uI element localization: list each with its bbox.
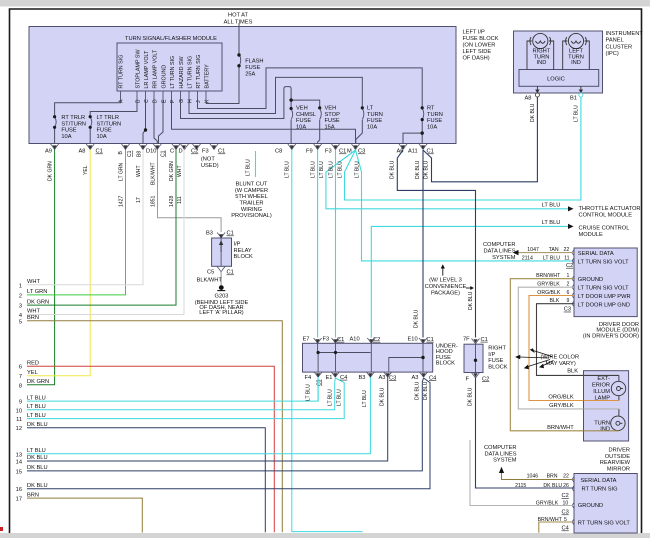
svg-text:RT: RT — [427, 106, 435, 112]
svg-text:DK BLU: DK BLU — [543, 483, 562, 489]
svg-text:E: E — [161, 99, 167, 103]
svg-text:K: K — [204, 99, 210, 103]
svg-text:SERIAL DATA: SERIAL DATA — [581, 478, 617, 484]
svg-text:C8: C8 — [275, 149, 282, 155]
svg-text:7: 7 — [19, 374, 22, 380]
svg-text:16: 16 — [16, 487, 22, 493]
svg-text:LT BLU: LT BLU — [328, 389, 334, 406]
svg-text:DRIVER: DRIVER — [609, 448, 631, 454]
svg-text:(IN DRIVER'S DOOR): (IN DRIVER'S DOOR) — [583, 333, 639, 339]
svg-text:HAZARD SW: HAZARD SW — [179, 55, 185, 88]
svg-text:1427: 1427 — [119, 196, 125, 207]
svg-text:LT BLU: LT BLU — [337, 389, 343, 406]
svg-text:17: 17 — [16, 497, 22, 503]
svg-text:CRUISE CONTROL: CRUISE CONTROL — [579, 226, 630, 232]
svg-text:LT BLU: LT BLU — [27, 413, 46, 419]
svg-text:DK GRN: DK GRN — [27, 379, 49, 385]
svg-text:CHMSL: CHMSL — [296, 112, 316, 118]
svg-text:TURN SIGNAL/FLASHER MODULE: TURN SIGNAL/FLASHER MODULE — [125, 36, 217, 42]
svg-text:5TH WHEEL: 5TH WHEEL — [235, 194, 268, 200]
svg-text:EXT-: EXT- — [597, 376, 610, 382]
svg-text:(IPC): (IPC) — [606, 51, 619, 57]
svg-text:10A: 10A — [296, 125, 306, 131]
svg-text:BLK/WHT: BLK/WHT — [197, 278, 223, 284]
svg-text:DK BLU: DK BLU — [390, 160, 396, 179]
svg-text:B: B — [135, 99, 141, 103]
svg-text:H: H — [187, 99, 193, 103]
svg-text:GRY/BLK: GRY/BLK — [549, 403, 574, 409]
svg-text:SERIAL DATA: SERIAL DATA — [578, 251, 614, 257]
svg-text:A10: A10 — [350, 336, 360, 342]
svg-text:I/P: I/P — [234, 242, 241, 248]
svg-text:10A: 10A — [97, 134, 107, 140]
svg-text:BLOCK: BLOCK — [488, 364, 507, 370]
svg-text:LT BLU: LT BLU — [543, 255, 560, 261]
svg-text:WHT: WHT — [27, 279, 40, 285]
svg-text:1428: 1428 — [169, 196, 175, 207]
svg-text:C3: C3 — [564, 307, 571, 313]
svg-text:B8: B8 — [137, 151, 143, 157]
svg-text:GROUND: GROUND — [578, 277, 603, 283]
svg-text:D: D — [179, 149, 183, 155]
svg-text:BRN/WHT: BRN/WHT — [547, 425, 574, 431]
svg-text:E1: E1 — [326, 375, 333, 381]
svg-text:RELAY: RELAY — [234, 248, 252, 254]
svg-text:LEFT SIDE: LEFT SIDE — [463, 49, 492, 55]
svg-text:F: F — [170, 100, 176, 103]
svg-text:J: J — [196, 100, 202, 103]
svg-text:COMPUTER: COMPUTER — [484, 445, 517, 451]
svg-text:LT BLU: LT BLU — [542, 220, 561, 226]
svg-text:ALL TIMES: ALL TIMES — [224, 20, 253, 26]
svg-text:FUSE: FUSE — [427, 118, 442, 124]
svg-text:LT BLU: LT BLU — [285, 161, 291, 178]
svg-text:C1: C1 — [127, 150, 133, 157]
svg-text:C4: C4 — [429, 375, 436, 381]
svg-text:A8: A8 — [525, 96, 532, 102]
svg-text:(WIRE COLOR: (WIRE COLOR — [541, 354, 580, 360]
svg-text:D10: D10 — [146, 149, 156, 155]
svg-text:DK BLU: DK BLU — [414, 309, 420, 328]
svg-text:DK BLU: DK BLU — [27, 422, 48, 428]
svg-text:TURN: TURN — [427, 112, 443, 118]
svg-text:TURN: TURN — [367, 112, 383, 118]
svg-text:A3: A3 — [412, 375, 419, 381]
svg-text:SYSTEM: SYSTEM — [492, 255, 516, 261]
svg-text:F9: F9 — [306, 149, 313, 155]
svg-text:LT GRN: LT GRN — [119, 162, 125, 181]
svg-text:1: 1 — [19, 283, 22, 289]
svg-text:(NOT: (NOT — [201, 157, 215, 163]
svg-text:FUSE: FUSE — [97, 128, 112, 134]
svg-text:C3: C3 — [389, 375, 396, 381]
svg-text:INSTRUMENT: INSTRUMENT — [606, 31, 644, 37]
svg-text:C4: C4 — [562, 526, 569, 532]
svg-text:GROUND: GROUND — [578, 503, 603, 509]
svg-text:USED): USED) — [201, 163, 219, 169]
svg-text:7F: 7F — [463, 336, 470, 342]
svg-text:MIRROR: MIRROR — [607, 467, 630, 473]
svg-text:BRN: BRN — [27, 315, 39, 321]
svg-text:C1: C1 — [427, 337, 434, 343]
svg-text:6: 6 — [19, 365, 22, 371]
svg-text:DK BLU: DK BLU — [468, 387, 474, 406]
svg-text:CONVENIENCE: CONVENIENCE — [425, 284, 467, 290]
svg-text:12: 12 — [16, 426, 22, 432]
svg-text:ST/TURN: ST/TURN — [97, 121, 122, 127]
svg-text:RT TURN SIG VOLT: RT TURN SIG VOLT — [578, 520, 631, 526]
svg-text:FLASH: FLASH — [245, 59, 263, 65]
svg-text:C1: C1 — [227, 270, 234, 276]
svg-text:1851: 1851 — [150, 196, 156, 207]
svg-text:10A: 10A — [427, 125, 437, 131]
svg-text:RIGHT: RIGHT — [488, 346, 506, 352]
svg-text:10A: 10A — [61, 134, 71, 140]
svg-text:C3: C3 — [317, 379, 323, 386]
svg-text:I/P: I/P — [488, 352, 495, 358]
svg-text:1047: 1047 — [527, 247, 539, 253]
svg-text:HOT AT: HOT AT — [228, 13, 249, 19]
svg-text:WHT: WHT — [177, 165, 183, 177]
svg-text:DATA LINES: DATA LINES — [483, 249, 515, 255]
svg-text:CLUSTER: CLUSTER — [606, 44, 633, 50]
svg-text:BRN: BRN — [547, 474, 558, 480]
svg-text:FUSE BLOCK: FUSE BLOCK — [463, 36, 499, 42]
svg-text:1046: 1046 — [527, 474, 539, 480]
svg-text:11: 11 — [564, 255, 569, 261]
svg-text:STOPLAMP SW: STOPLAMP SW — [136, 49, 142, 89]
svg-text:2: 2 — [19, 293, 22, 299]
svg-text:LOGIC: LOGIC — [547, 77, 565, 83]
svg-text:C3: C3 — [562, 510, 569, 516]
svg-text:17: 17 — [136, 197, 142, 203]
svg-text:DK GRN: DK GRN — [169, 161, 175, 181]
svg-text:TRAILER: TRAILER — [239, 201, 263, 207]
svg-text:A9: A9 — [45, 149, 52, 155]
svg-text:SYSTEM: SYSTEM — [493, 458, 517, 464]
svg-text:OF DASH): OF DASH) — [463, 56, 490, 62]
svg-text:DK BLU: DK BLU — [380, 387, 386, 406]
svg-text:DK BLU: DK BLU — [530, 103, 536, 122]
svg-text:ERIOR: ERIOR — [592, 382, 610, 388]
svg-text:F4: F4 — [305, 375, 312, 381]
svg-text:LT BLU: LT BLU — [246, 159, 252, 176]
svg-text:F3: F3 — [325, 149, 332, 155]
svg-text:LT TRLR: LT TRLR — [97, 115, 119, 121]
svg-text:C2: C2 — [191, 149, 198, 155]
svg-text:C: C — [170, 149, 174, 155]
svg-text:F: F — [466, 376, 470, 382]
svg-text:2114: 2114 — [522, 255, 533, 261]
svg-text:IND: IND — [600, 426, 610, 432]
svg-text:22: 22 — [564, 247, 570, 253]
svg-text:C1: C1 — [227, 231, 234, 237]
svg-text:111: 111 — [177, 196, 183, 204]
svg-text:C2: C2 — [566, 263, 573, 269]
svg-text:REARVIEW: REARVIEW — [600, 460, 631, 466]
svg-text:C1: C1 — [481, 337, 488, 343]
svg-text:26: 26 — [563, 483, 569, 489]
svg-text:C4: C4 — [340, 375, 347, 381]
svg-text:LT BLU: LT BLU — [542, 203, 561, 209]
svg-text:DK BLU: DK BLU — [424, 160, 430, 179]
svg-text:C1: C1 — [337, 337, 344, 343]
svg-text:LEFT I/P: LEFT I/P — [463, 30, 486, 36]
svg-text:13: 13 — [16, 452, 22, 458]
svg-text:15A: 15A — [325, 125, 335, 131]
svg-text:FUSE: FUSE — [296, 118, 311, 124]
svg-text:LT BLU: LT BLU — [329, 161, 335, 178]
svg-text:WHT: WHT — [136, 165, 142, 177]
svg-text:E7: E7 — [303, 336, 310, 342]
svg-text:LT BLU: LT BLU — [27, 448, 46, 454]
svg-text:9: 9 — [19, 400, 22, 406]
svg-text:THROTTLE ACTUATOR: THROTTLE ACTUATOR — [579, 206, 641, 212]
svg-text:C2: C2 — [482, 376, 489, 382]
svg-text:C2: C2 — [562, 493, 569, 499]
svg-text:DK GRN: DK GRN — [48, 161, 54, 181]
svg-text:LT: LT — [367, 106, 374, 112]
svg-text:E10: E10 — [408, 336, 418, 342]
svg-text:B: B — [118, 151, 124, 155]
svg-text:C5: C5 — [207, 270, 214, 276]
svg-text:DATA LINES: DATA LINES — [484, 451, 516, 457]
svg-text:8: 8 — [19, 383, 22, 389]
svg-text:LT BLU: LT BLU — [574, 105, 580, 122]
svg-text:G: G — [179, 99, 185, 103]
svg-text:5: 5 — [19, 319, 22, 325]
svg-text:FUSE: FUSE — [325, 118, 340, 124]
svg-text:RT TURN SIG: RT TURN SIG — [119, 55, 125, 89]
svg-text:RT TURN SIG: RT TURN SIG — [582, 487, 618, 493]
svg-text:C2: C2 — [373, 337, 380, 343]
svg-text:DK BLU: DK BLU — [27, 483, 48, 489]
svg-text:COMPUTER: COMPUTER — [483, 242, 516, 248]
svg-text:ORG/BLK: ORG/BLK — [548, 395, 573, 401]
svg-text:DK BLU: DK BLU — [423, 381, 429, 400]
svg-text:A3: A3 — [379, 375, 386, 381]
svg-text:PANEL: PANEL — [606, 38, 624, 44]
svg-text:BRN: BRN — [27, 492, 39, 498]
svg-text:B3: B3 — [206, 231, 213, 237]
svg-text:C1: C1 — [218, 149, 225, 155]
svg-text:F3: F3 — [323, 336, 330, 342]
svg-text:DK BLU: DK BLU — [27, 455, 48, 461]
svg-text:BLOCK: BLOCK — [436, 361, 455, 367]
svg-text:10A: 10A — [367, 125, 377, 131]
svg-text:LT TURN SIG VOLT: LT TURN SIG VOLT — [578, 286, 629, 292]
svg-text:FUSE: FUSE — [488, 358, 503, 364]
svg-text:RED: RED — [27, 360, 39, 366]
svg-text:LT BLU: LT BLU — [319, 161, 325, 178]
svg-text:3: 3 — [19, 304, 22, 310]
svg-text:BLUNT CUT: BLUNT CUT — [236, 182, 268, 188]
svg-text:(W/ LEVEL 3: (W/ LEVEL 3 — [429, 277, 462, 283]
svg-text:DK BLU: DK BLU — [27, 465, 48, 471]
svg-text:FUSE: FUSE — [61, 128, 76, 134]
svg-text:B3: B3 — [359, 375, 366, 381]
svg-text:LT DOOR LMP PWR: LT DOOR LMP PWR — [578, 294, 631, 300]
svg-text:C1: C1 — [96, 149, 103, 155]
svg-text:YEL: YEL — [27, 370, 38, 376]
svg-text:DK GRN: DK GRN — [27, 299, 49, 305]
svg-text:WHT: WHT — [27, 309, 40, 315]
svg-text:OUTSIDE: OUTSIDE — [605, 454, 630, 460]
svg-text:FUSE: FUSE — [367, 118, 382, 124]
svg-text:FUSE: FUSE — [245, 65, 260, 71]
svg-text:BLOCK: BLOCK — [234, 254, 253, 260]
svg-text:LT BLU: LT BLU — [355, 161, 361, 178]
svg-text:(ON LOWER: (ON LOWER — [463, 43, 496, 49]
svg-text:PROVISIONAL): PROVISIONAL) — [231, 213, 272, 219]
svg-text:A8: A8 — [79, 149, 86, 155]
svg-text:15: 15 — [16, 469, 22, 475]
svg-text:LT BLU: LT BLU — [27, 395, 46, 401]
svg-text:IND: IND — [537, 60, 547, 66]
svg-text:DK BLU: DK BLU — [415, 160, 421, 179]
svg-text:B1: B1 — [570, 96, 577, 102]
svg-text:DK BLU: DK BLU — [415, 381, 421, 400]
svg-text:MODULE: MODULE — [579, 232, 604, 238]
svg-text:RT TURN SIG: RT TURN SIG — [196, 55, 202, 89]
svg-text:LT BLU: LT BLU — [362, 390, 368, 407]
svg-text:LT BLU: LT BLU — [338, 161, 344, 178]
svg-text:ILLUM: ILLUM — [593, 389, 610, 395]
svg-text:BLK: BLK — [567, 369, 578, 375]
svg-text:LR LAMP VOLT: LR LAMP VOLT — [144, 50, 150, 89]
svg-text:LT GRN: LT GRN — [27, 289, 47, 295]
svg-text:14: 14 — [16, 460, 22, 466]
svg-text:LT TURN SIG VOLT: LT TURN SIG VOLT — [578, 259, 629, 265]
svg-text:PACKAGE): PACKAGE) — [431, 290, 460, 296]
svg-text:4: 4 — [19, 313, 22, 319]
svg-text:LEFT 'A' PILLAR): LEFT 'A' PILLAR) — [199, 310, 244, 316]
svg-text:VEH: VEH — [296, 106, 308, 112]
svg-text:ST/TURN: ST/TURN — [61, 121, 86, 127]
svg-text:STOP: STOP — [325, 112, 341, 118]
svg-text:IND: IND — [571, 60, 581, 66]
svg-text:CONTROL MODULE: CONTROL MODULE — [579, 212, 633, 218]
svg-text:22: 22 — [563, 474, 569, 480]
svg-text:BLK/WHT: BLK/WHT — [150, 162, 156, 185]
svg-text:GROUND: GROUND — [162, 65, 168, 89]
svg-text:C: C — [144, 99, 150, 103]
svg-text:LT DOOR LMP GND: LT DOOR LMP GND — [578, 302, 630, 308]
svg-text:D: D — [152, 99, 158, 103]
svg-text:C1: C1 — [339, 149, 346, 155]
svg-text:BATTERY: BATTERY — [205, 64, 211, 89]
svg-text:A11: A11 — [408, 149, 418, 155]
svg-text:C3: C3 — [358, 149, 365, 155]
svg-text:10: 10 — [16, 408, 22, 414]
svg-text:YEL: YEL — [83, 165, 89, 175]
svg-text:C1: C1 — [161, 150, 167, 157]
svg-text:25A: 25A — [245, 72, 255, 78]
svg-text:(W CAMPER: (W CAMPER — [235, 188, 268, 194]
svg-text:G203: G203 — [215, 294, 229, 300]
svg-text:VEH: VEH — [325, 106, 337, 112]
svg-text:LT BLU: LT BLU — [27, 404, 46, 410]
svg-text:RR LAMP VOLT: RR LAMP VOLT — [153, 49, 159, 88]
svg-text:LT TURN SIG: LT TURN SIG — [188, 56, 194, 89]
svg-text:LT BLU: LT BLU — [306, 384, 312, 401]
svg-text:WIRING: WIRING — [241, 207, 262, 213]
svg-text:11: 11 — [16, 417, 22, 423]
svg-text:RT TRLR: RT TRLR — [61, 115, 85, 121]
svg-text:LT TURN SIG: LT TURN SIG — [170, 56, 176, 89]
svg-text:F3: F3 — [202, 149, 209, 155]
svg-text:DK BLU: DK BLU — [468, 291, 474, 310]
svg-text:2115: 2115 — [515, 483, 526, 489]
svg-text:LT BLU: LT BLU — [311, 161, 317, 178]
svg-text:TAN: TAN — [549, 247, 559, 253]
